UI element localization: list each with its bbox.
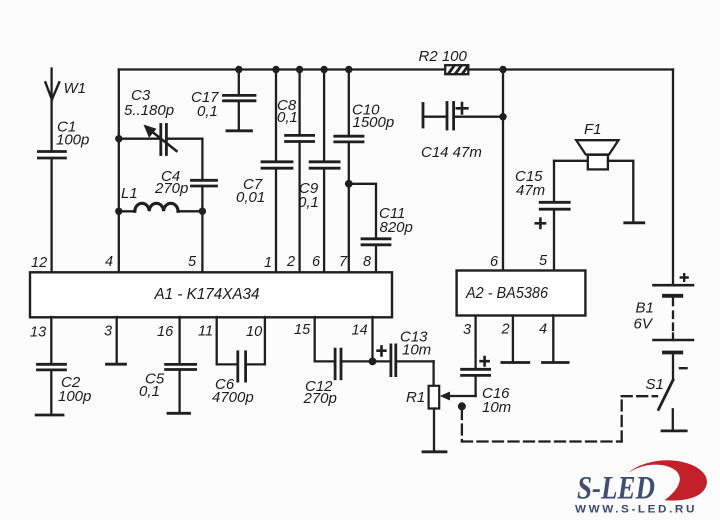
svg-text:2: 2 xyxy=(286,254,295,270)
inductor L1 xyxy=(119,185,203,211)
svg-text:R1: R1 xyxy=(406,389,425,406)
svg-text:S1: S1 xyxy=(646,376,664,393)
capacitor C12 (pin 15 to pin 14 node) xyxy=(303,317,373,407)
svg-text:11: 11 xyxy=(198,324,213,340)
capacitor C14 xyxy=(421,103,503,162)
wire C15 to F1 xyxy=(554,160,588,162)
svg-text:12: 12 xyxy=(31,255,47,271)
capacitor C13 xyxy=(373,329,434,376)
svg-text:6: 6 xyxy=(490,254,499,270)
antenna W1 xyxy=(45,69,86,152)
node tank bottom (L1 branch) xyxy=(115,208,122,215)
capacitor C15 xyxy=(515,161,569,271)
wire C11 branch xyxy=(349,184,376,239)
svg-text:6: 6 xyxy=(312,254,321,270)
svg-text:3: 3 xyxy=(104,324,112,340)
svg-text:A1 - K174XA34: A1 - K174XA34 xyxy=(154,286,260,303)
svg-text:0,1: 0,1 xyxy=(277,109,298,126)
svg-text:3: 3 xyxy=(463,322,471,338)
svg-text:0,1: 0,1 xyxy=(197,103,218,120)
svg-text:4: 4 xyxy=(105,254,113,270)
op-amp U1: IC A1 K174XA34 xyxy=(30,272,392,317)
svg-text:5..180p: 5..180p xyxy=(124,102,174,119)
S-LED logo xyxy=(575,460,707,515)
node pin 14 / C13 xyxy=(369,358,377,366)
svg-text:1: 1 xyxy=(264,255,272,271)
svg-text:1500p: 1500p xyxy=(353,114,395,131)
svg-text:0,01: 0,01 xyxy=(236,189,265,206)
wire top rail xyxy=(119,68,673,70)
svg-text:16: 16 xyxy=(157,324,174,340)
svg-text:10m: 10m xyxy=(402,342,431,359)
svg-text:0,1: 0,1 xyxy=(139,383,160,400)
svg-text:270p: 270p xyxy=(303,390,337,407)
svg-text:47m: 47m xyxy=(516,182,545,199)
wire pin 13 + capacitor C2 xyxy=(36,317,91,415)
ground bar F1 xyxy=(625,221,644,224)
wire F1 to ground xyxy=(608,161,633,222)
svg-text:100p: 100p xyxy=(58,388,91,405)
svg-text:8: 8 xyxy=(363,254,371,270)
node dashed link at R1 xyxy=(458,402,466,410)
op-amp U2: IC A2 BA5386 xyxy=(457,271,586,316)
capacitor C3 (variable) xyxy=(119,87,203,155)
svg-text:10m: 10m xyxy=(482,399,511,416)
svg-text:0,1: 0,1 xyxy=(298,194,319,211)
svg-text:270p: 270p xyxy=(154,180,188,197)
svg-text:F1: F1 xyxy=(584,121,602,138)
svg-text:B1: B1 xyxy=(636,300,654,317)
wire pin 7 + capacitor C10 xyxy=(335,66,394,273)
battery B1 xyxy=(634,274,694,380)
capacitor C4 xyxy=(154,168,217,197)
svg-text:C14 47m: C14 47m xyxy=(421,144,482,161)
svg-text:820p: 820p xyxy=(380,219,413,236)
node tank top (C3 branch) xyxy=(115,135,122,142)
svg-text:10: 10 xyxy=(246,324,262,340)
wire pin 16 + capacitor C5 xyxy=(139,317,196,413)
wire pin 2 + capacitor C8 xyxy=(277,66,314,273)
capacitor C17 xyxy=(191,66,255,131)
wire pin 1 + capacitor C7 xyxy=(236,66,292,273)
svg-text:15: 15 xyxy=(294,322,311,338)
wire pin 4 (rail corner down to A1) xyxy=(118,70,120,273)
wire A2 pin 6 (from rail) xyxy=(499,66,506,271)
wire dashed mechanical link xyxy=(462,396,657,441)
svg-text:L1: L1 xyxy=(121,185,138,202)
svg-text:WWW.S-LED.RU: WWW.S-LED.RU xyxy=(575,504,697,516)
speaker F1 xyxy=(576,121,618,169)
logo red swoosh xyxy=(629,460,707,500)
wire A2 pin 4 to ground xyxy=(543,316,569,363)
wire pin 6 + capacitor C9 xyxy=(298,66,339,273)
node L1 right xyxy=(199,208,206,215)
wire pin 14 xyxy=(371,317,373,361)
svg-text:W1: W1 xyxy=(64,80,87,97)
svg-text:6V: 6V xyxy=(634,316,654,333)
svg-text:5: 5 xyxy=(539,253,548,269)
svg-text:13: 13 xyxy=(30,325,46,341)
wire pin 3 to ground xyxy=(107,317,126,364)
switch S1 xyxy=(646,376,687,431)
resistor R1 (potentiometer) xyxy=(406,361,476,451)
svg-text:4: 4 xyxy=(539,322,547,338)
resistor R2 xyxy=(419,48,469,74)
svg-text:5: 5 xyxy=(188,254,197,270)
wire pin 5 (tank right side down to A1) xyxy=(201,139,203,180)
capacitor C16 (A2 pin 3) xyxy=(462,316,512,417)
node C11 branch xyxy=(345,180,353,188)
svg-text:7: 7 xyxy=(339,254,348,270)
svg-text:2: 2 xyxy=(501,322,510,338)
capacitor C1 xyxy=(38,119,89,159)
wire A2 pin 2 to ground xyxy=(502,316,529,363)
svg-text:14: 14 xyxy=(352,323,368,339)
svg-text:4700p: 4700p xyxy=(212,389,254,406)
capacitor C11 xyxy=(362,205,413,273)
wire C1 to pin 12 xyxy=(50,158,52,273)
svg-text:R2 100: R2 100 xyxy=(419,48,468,65)
svg-text:A2 - BA5386: A2 - BA5386 xyxy=(465,285,548,302)
capacitor C6 (between pins 11 and 10) xyxy=(212,317,265,406)
svg-text:100p: 100p xyxy=(56,132,89,149)
wire right rail to battery xyxy=(672,70,674,286)
svg-text:S-LED: S-LED xyxy=(577,471,655,507)
